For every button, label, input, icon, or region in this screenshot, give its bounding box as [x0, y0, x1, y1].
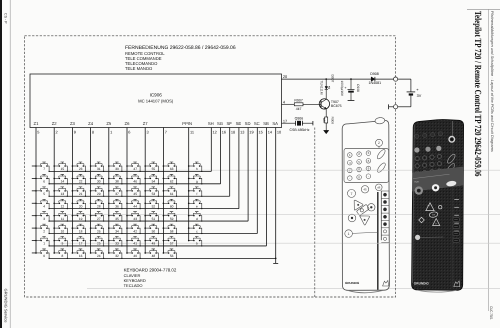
remote outline callout 1 [345, 230, 353, 238]
switch S38 [108, 174, 123, 184]
LED D907 [325, 86, 328, 89]
remote photo pill lower [446, 162, 456, 173]
svg-text:22: 22 [79, 180, 83, 184]
svg-text:25: 25 [97, 242, 101, 246]
remote photo divider line [413, 174, 450, 178]
svg-text:MC 144107 (MOS): MC 144107 (MOS) [138, 99, 174, 104]
svg-text:Telepilot TP 720 / Remote Cont: Telepilot TP 720 / Remote Control TP 720… [472, 11, 482, 177]
svg-text:3V: 3V [417, 94, 422, 98]
wire battery return [398, 106, 411, 108]
svg-text:SB: SB [263, 121, 269, 126]
svg-text:16: 16 [79, 254, 83, 258]
connector plus on border [394, 77, 398, 81]
svg-text:6: 6 [128, 129, 130, 134]
svg-text:13: 13 [240, 129, 244, 134]
svg-text:4: 4 [43, 204, 45, 208]
svg-text:21: 21 [79, 192, 83, 196]
svg-text:51: 51 [152, 217, 156, 221]
svg-text:Platinenabbildungen und Schalt: Platinenabbildungen und Schaltpläne · La… [490, 11, 494, 152]
switch S30 [90, 174, 105, 184]
svg-text:7: 7 [43, 167, 45, 171]
svg-text:Z3: Z3 [70, 121, 76, 126]
remote photo white ring [432, 184, 439, 191]
wire row stub left r8 [32, 252, 36, 254]
svg-text:1000µ/16V: 1000µ/16V [340, 81, 344, 97]
wire V+ top rail [282, 78, 411, 80]
svg-text:h: h [196, 167, 198, 171]
wire column Z3 [71, 128, 73, 253]
remote outline lens [375, 117, 385, 124]
remote outline bottom shadow [348, 290, 384, 293]
svg-text:GRUNDIG Service: GRUNDIG Service [3, 289, 8, 323]
switch S43 [126, 212, 141, 222]
remote photo pill upper [446, 153, 456, 164]
terminal tick return [388, 104, 390, 109]
svg-text:8: 8 [92, 129, 94, 134]
svg-text:Z7: Z7 [143, 121, 149, 126]
wire R907 to T907 base [303, 103, 321, 105]
svg-text:CSB 485kHz: CSB 485kHz [289, 128, 309, 132]
switch S42 [126, 224, 141, 234]
switch S26 [90, 224, 105, 234]
svg-text:39: 39 [115, 167, 119, 171]
svg-text:OK: OK [432, 214, 436, 217]
svg-text:15: 15 [259, 129, 263, 134]
svg-text:4k7: 4k7 [296, 107, 302, 111]
switch Pd [188, 212, 203, 222]
svg-text:17: 17 [79, 242, 83, 246]
ground [324, 130, 329, 133]
svg-text:59: 59 [170, 217, 174, 221]
svg-text:R907: R907 [294, 99, 302, 103]
svg-text:5: 5 [43, 192, 45, 196]
svg-text:57: 57 [170, 242, 174, 246]
remote photo small circle line [421, 236, 444, 238]
switch S50 [144, 224, 159, 234]
wire column Z5 [108, 128, 110, 253]
wire column Z4 [90, 128, 92, 253]
remote outline right ladder [381, 191, 389, 243]
wire column Z2 [53, 128, 55, 253]
switch S27 [90, 212, 105, 222]
faint rule over remote y214 [343, 214, 377, 216]
connector minus on border [394, 105, 398, 109]
switch S24 [90, 249, 105, 259]
svg-text:Z4: Z4 [88, 121, 94, 126]
remote outline pill upper [376, 148, 387, 160]
svg-text:13: 13 [61, 192, 65, 196]
switch S8 [53, 249, 68, 259]
remote photo white oval [446, 180, 457, 187]
switch S29 [90, 187, 105, 197]
wire row stub left r4 [32, 202, 36, 204]
faint rule y170 [60, 169, 500, 171]
svg-text:f: f [196, 192, 197, 196]
svg-text:48: 48 [152, 254, 156, 258]
svg-text:36: 36 [115, 204, 119, 208]
svg-text:Z1: Z1 [34, 121, 40, 126]
svg-text:30: 30 [97, 180, 101, 184]
svg-text:38: 38 [115, 180, 119, 184]
svg-text:53: 53 [152, 192, 156, 196]
resistor R907 [294, 103, 303, 106]
left margin rule [9, 0, 11, 328]
switch S19 [72, 212, 87, 222]
svg-text:CS - P: CS - P [3, 13, 7, 24]
svg-text:61: 61 [170, 192, 174, 196]
switch S25 [90, 237, 105, 247]
remote photo small circle [415, 235, 420, 240]
svg-text:63: 63 [170, 167, 174, 171]
svg-text:17: 17 [283, 118, 287, 123]
switch S46 [126, 174, 141, 184]
svg-text:0: 0 [43, 254, 45, 258]
svg-text:42: 42 [133, 229, 137, 233]
wire SC vertical [256, 128, 258, 234]
svg-text:TECLADO: TECLADO [124, 283, 143, 288]
wire row bus SB [49, 245, 266, 247]
svg-text:BC875: BC875 [331, 104, 342, 108]
switch S60 [163, 199, 178, 209]
svg-text:18: 18 [231, 129, 235, 134]
wire Q906 right [302, 122, 313, 124]
switch S35 [108, 212, 123, 222]
svg-text:GRUNDIG: GRUNDIG [414, 281, 430, 285]
svg-text:14: 14 [61, 180, 65, 184]
svg-text:TELE MANDO: TELE MANDO [125, 66, 153, 71]
svg-text:52: 52 [152, 204, 156, 208]
switch S23 [72, 162, 87, 172]
remote outline pill lower [376, 162, 387, 174]
svg-text:11: 11 [190, 129, 194, 134]
faint rule y288 [87, 288, 500, 290]
remote photo right labels [454, 199, 459, 240]
switch S45 [126, 187, 141, 197]
switch S37 [108, 187, 123, 197]
node LED top [325, 78, 327, 80]
wire SA bottom stub [275, 258, 277, 263]
dashed enclosure border [25, 36, 396, 297]
switch S57 [163, 237, 178, 247]
remote outline callout line [353, 232, 378, 233]
svg-text:29: 29 [97, 192, 101, 196]
node C908 top [350, 78, 352, 80]
svg-text:10: 10 [61, 229, 65, 233]
switch S22 [72, 174, 87, 184]
svg-text:12: 12 [61, 204, 65, 208]
svg-text:20: 20 [79, 204, 83, 208]
svg-text:16: 16 [222, 129, 226, 134]
remote photo power ring [449, 137, 455, 143]
svg-text:g: g [196, 180, 198, 184]
remote outline callout 46 [376, 184, 383, 191]
wire SE vertical [238, 128, 240, 209]
switch S52 [144, 199, 159, 209]
switch S11 [53, 212, 68, 222]
svg-text:Z5: Z5 [106, 121, 112, 126]
remote outline warning icon [383, 280, 389, 286]
switch S47 [126, 162, 141, 172]
switch S0 [35, 249, 50, 259]
transistor T907 [319, 99, 329, 109]
switch S59 [163, 212, 178, 222]
switch S54 [144, 174, 159, 184]
capacitor C908 [350, 79, 352, 89]
switch S39 [108, 162, 123, 172]
svg-text:26: 26 [97, 229, 101, 233]
svg-text:19: 19 [79, 217, 83, 221]
switch S41 [126, 237, 141, 247]
svg-text:2: 2 [56, 129, 58, 134]
remote photo nav cluster [419, 203, 442, 226]
svg-text:D907: D907 [331, 75, 335, 83]
wire column Z6 [126, 128, 128, 253]
switch S6 [35, 174, 50, 184]
switch S58 [163, 224, 178, 234]
switch S18 [72, 224, 87, 234]
wire row bus SG [49, 183, 220, 185]
wire row stub left r7 [32, 240, 36, 242]
svg-text:R908: R908 [330, 117, 334, 125]
svg-text:SG: SG [217, 121, 223, 126]
svg-text:1: 1 [43, 242, 45, 246]
switch S20 [72, 199, 87, 209]
wire row bus SE [49, 208, 239, 210]
remote photo button grid [415, 154, 442, 175]
faint rule y214 [60, 214, 500, 216]
svg-text:SH: SH [208, 121, 214, 126]
svg-text:d: d [196, 217, 198, 221]
switch S34 [108, 224, 123, 234]
svg-text:9: 9 [74, 129, 76, 134]
svg-text:28: 28 [97, 204, 101, 208]
wire row stub left r3 [32, 190, 36, 192]
wire SD vertical [247, 128, 249, 222]
wire SA vertical [275, 128, 277, 259]
switch S13 [53, 187, 68, 197]
switch S63 [163, 162, 178, 172]
switch Pe [188, 199, 203, 209]
remote drawing outline body [342, 120, 389, 290]
svg-text:60: 60 [170, 204, 174, 208]
svg-text:PPIN: PPIN [182, 121, 192, 126]
switch Pb [188, 237, 203, 247]
remote outline callout 2 [376, 139, 383, 146]
svg-text:e: e [196, 204, 198, 208]
remote outline keypad panel [344, 149, 389, 183]
remote photo top button row [415, 132, 443, 139]
remote photo left edge highlight [413, 125, 415, 284]
svg-text:9: 9 [62, 242, 64, 246]
remote photo bottom shadow [418, 290, 457, 292]
switch S31 [90, 162, 105, 172]
svg-text:Z6: Z6 [125, 121, 131, 126]
resistor R908 [325, 117, 328, 123]
switch S61 [163, 187, 178, 197]
remote photo glare line [451, 121, 453, 137]
svg-text:23: 23 [79, 167, 83, 171]
svg-text:SF: SF [227, 121, 233, 126]
svg-text:CUC 7301: CUC 7301 [489, 306, 493, 319]
switch S28 [90, 199, 105, 209]
svg-text:45: 45 [133, 192, 137, 196]
svg-text:31: 31 [97, 167, 101, 171]
wire column Z7 [144, 128, 146, 253]
terminal tick Q906 [312, 121, 314, 125]
svg-text:GRUNDIG: GRUNDIG [345, 281, 360, 285]
svg-text:24: 24 [97, 254, 101, 258]
faint rule y243 [60, 242, 500, 244]
switch S21 [72, 187, 87, 197]
svg-text:7: 7 [165, 129, 167, 134]
svg-text:55: 55 [152, 167, 156, 171]
wire pin17 to Q906 [282, 122, 296, 124]
faint rule over remote y170 [343, 169, 389, 171]
svg-text:-: - [368, 174, 369, 178]
svg-text:TLN111M: TLN111M [320, 81, 324, 95]
svg-text:3: 3 [147, 129, 149, 134]
svg-text:43: 43 [133, 217, 137, 221]
switch S44 [126, 199, 141, 209]
switch S7 [35, 162, 50, 172]
switch S48 [144, 249, 159, 259]
wire row stub left r2 [32, 177, 36, 179]
svg-text:50: 50 [152, 229, 156, 233]
svg-text:47: 47 [133, 167, 137, 171]
svg-text:7: 7 [351, 192, 353, 196]
switch S17 [72, 237, 87, 247]
remote outline callout 7 [348, 189, 356, 197]
svg-text:41: 41 [133, 242, 137, 246]
switch S62 [163, 174, 178, 184]
wire SG vertical [220, 128, 222, 184]
svg-text:Z2: Z2 [52, 121, 58, 126]
svg-text:SE: SE [236, 121, 242, 126]
wire column PPIN [188, 128, 190, 241]
svg-text:1: 1 [348, 232, 350, 236]
switch S32 [108, 249, 123, 259]
svg-text:5: 5 [37, 129, 39, 134]
wire pin4 to R907 [282, 103, 295, 105]
svg-text:58: 58 [170, 229, 174, 233]
svg-text:3: 3 [43, 217, 45, 221]
svg-text:12: 12 [213, 129, 217, 134]
wire SB vertical [266, 128, 268, 246]
wire row bus SA [49, 257, 276, 259]
svg-text:-: - [349, 176, 350, 180]
svg-text:15: 15 [61, 167, 65, 171]
wire row bus SD [49, 220, 248, 222]
svg-text:56: 56 [170, 254, 174, 258]
wire row stub left r1 [32, 165, 36, 167]
resonator Q906 [295, 121, 297, 126]
svg-text:35: 35 [115, 217, 119, 221]
svg-text:Q906: Q906 [295, 116, 304, 120]
svg-text:33: 33 [115, 242, 119, 246]
switch Ph [188, 162, 203, 172]
left binding black bar [0, 0, 2, 328]
remote photo gray button row [414, 147, 419, 152]
svg-text:SD: SD [245, 121, 251, 126]
wire column Z1 [35, 128, 37, 253]
switch S16 [72, 249, 87, 259]
terminal tick SA [273, 262, 278, 264]
svg-text:18: 18 [79, 229, 83, 233]
svg-text:SC: SC [254, 121, 260, 126]
switch S1 [35, 237, 50, 247]
svg-text:49: 49 [152, 242, 156, 246]
svg-text:40: 40 [133, 254, 137, 258]
wire T907 emitter to R908 [325, 109, 327, 117]
wire row bus SC [49, 233, 257, 235]
svg-text:1N4081: 1N4081 [369, 81, 382, 85]
switch S51 [144, 212, 159, 222]
svg-text:2: 2 [378, 141, 380, 145]
right sidebar vertical rule [487, 9, 489, 311]
switch S3 [35, 212, 50, 222]
remote photo right buttons [453, 218, 459, 243]
remote outline right rail [377, 192, 379, 290]
switch S10 [53, 224, 68, 234]
switch S9 [53, 237, 68, 247]
switch S40 [126, 249, 141, 259]
svg-text:46: 46 [133, 180, 137, 184]
svg-text:37: 37 [115, 192, 119, 196]
svg-text:IC906: IC906 [150, 93, 163, 98]
svg-text:19: 19 [249, 129, 253, 134]
svg-text:11: 11 [61, 217, 65, 221]
wire SF vertical [229, 128, 231, 197]
switch S15 [53, 162, 68, 172]
terminal tick C908 [348, 100, 355, 102]
wire row stub left r5 [32, 215, 36, 217]
svg-text:1: 1 [110, 129, 112, 134]
IC IC906 [30, 74, 282, 128]
svg-text:D908: D908 [370, 72, 379, 76]
wire row bus SH [49, 170, 211, 172]
dashed divider [314, 128, 316, 298]
wire R908 to ground [325, 123, 327, 130]
switch Pg [188, 174, 203, 184]
remote photo warning icon [454, 281, 460, 287]
svg-text:SA: SA [272, 121, 278, 126]
remote outline callout 45 [361, 186, 368, 193]
svg-text:C908: C908 [356, 84, 360, 92]
switch S14 [53, 174, 68, 184]
switch Pf [188, 187, 203, 197]
svg-text:KEYBOARD 29004-778.02: KEYBOARD 29004-778.02 [124, 268, 177, 273]
wire column Z8 [162, 128, 164, 253]
switch S4 [35, 199, 50, 209]
remote photo mid panel band [413, 167, 463, 191]
svg-text:45: 45 [363, 188, 367, 192]
remote photo big gray ring [415, 186, 423, 194]
svg-text:32: 32 [115, 254, 119, 258]
switch Pc [188, 224, 203, 234]
svg-text:2: 2 [43, 229, 45, 233]
switch S2 [35, 224, 50, 234]
switch S33 [108, 237, 123, 247]
switch S49 [144, 237, 159, 247]
svg-text:680: 680 [322, 118, 326, 123]
svg-text:54: 54 [152, 180, 156, 184]
wire SH vertical [210, 128, 212, 172]
svg-text:44: 44 [133, 204, 137, 208]
switch S12 [53, 199, 68, 209]
remote outline nav cluster [348, 200, 375, 225]
switch S5 [35, 187, 50, 197]
faint rule over remote y243 [343, 242, 390, 244]
